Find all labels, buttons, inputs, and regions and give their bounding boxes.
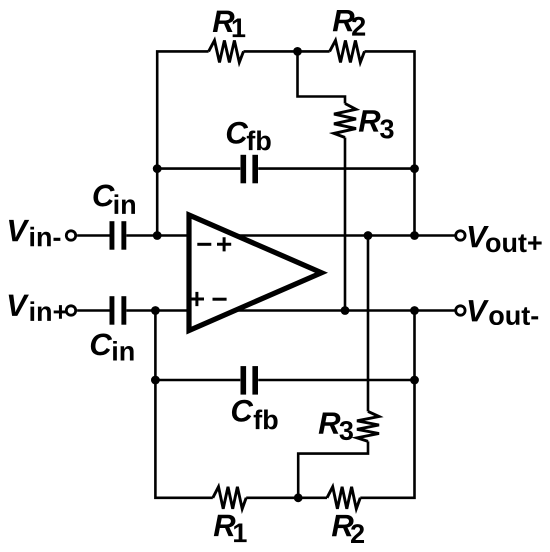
op-amp U1 bbox=[189, 215, 322, 331]
wire: Cfb top rail left segment bbox=[157, 167, 240, 170]
label Cfb (bottom) bbox=[232, 400, 278, 430]
node: top R1-R2 junction dot bbox=[293, 47, 302, 56]
node: Cfb top left dot bbox=[153, 164, 162, 173]
label Vin+ bbox=[9, 295, 68, 321]
wire: bottom-left vertical from Vin+ node down to bottom rail, and bottom rail left segment bbox=[155, 311, 212, 498]
node: bottom R1-R2 junction dot bbox=[294, 493, 303, 502]
wire: Vout+ rail from op-amp top output to terminal bbox=[236, 234, 455, 237]
wire: top rail right segment and right vertical down to Vout+ rail bbox=[365, 51, 415, 235]
capacitor Cin (top) bbox=[110, 221, 115, 250]
op-amp U1 bottom "-" output polarity mark bbox=[213, 298, 227, 301]
label R3 (bottom) bbox=[319, 412, 353, 440]
node: Cfb bottom left dot bbox=[151, 376, 160, 385]
capacitor Cfb (bottom) bbox=[241, 366, 247, 395]
wire: Cfb bottom rail left segment bbox=[155, 379, 240, 382]
resistor R2 (bottom) bbox=[327, 487, 360, 509]
wire: Vin- terminal to Cin bbox=[77, 234, 110, 237]
terminal: Vout- output circle bbox=[456, 306, 465, 315]
node: Vout- rail x right vertical dot bbox=[410, 306, 419, 315]
label R2 (bottom) bbox=[332, 515, 364, 543]
label R2 (top) bbox=[333, 10, 365, 36]
wire: bottom-R3 vertical from Vout+ rail down to R3 bottom (crosses Vout- rail) bbox=[367, 236, 370, 412]
op-amp U1 top "+" output polarity mark bbox=[217, 237, 231, 251]
op-amp U1 non-inverting input mark (bottom left "+") bbox=[190, 292, 204, 306]
terminal: Vin- input circle bbox=[66, 231, 75, 240]
terminal: Vin+ input circle bbox=[66, 306, 75, 315]
resistor R3 (top) bbox=[334, 104, 356, 138]
wire: top rail segment between R1 and R2 bbox=[244, 50, 330, 53]
capacitor Cfb (top) bbox=[241, 155, 247, 184]
wire: top-left vertical from Vin- node up to top rail, and top rail left segment bbox=[157, 51, 208, 235]
label Vin- bbox=[9, 220, 60, 246]
node: Cfb bottom right dot bbox=[410, 376, 419, 385]
node: Vout+ rail x bottom-R3 vertical dot bbox=[364, 231, 373, 240]
node: Vout+ rail x right vertical dot bbox=[410, 231, 419, 240]
resistor R1 (bottom) bbox=[213, 487, 246, 509]
label Cin (top) bbox=[93, 185, 135, 214]
label R1 (top) bbox=[213, 11, 245, 37]
wire: bottom rail right segment and right vertical up to Vout- rail bbox=[360, 311, 414, 498]
wire: R3 bottom lead down, left and down to bottom junction bbox=[298, 441, 368, 497]
label Cfb (top) bbox=[227, 122, 271, 151]
label Vout- bbox=[469, 300, 539, 325]
label R3 (top) bbox=[359, 110, 394, 138]
node: R3 top to Vout- rail dot bbox=[341, 306, 350, 315]
resistor R1 (top) bbox=[209, 40, 244, 62]
resistor R2 (top) bbox=[330, 40, 365, 62]
capacitor Cin (bottom) bbox=[110, 296, 115, 325]
wire: Vout- rail from op-amp bottom output to terminal bbox=[236, 309, 455, 312]
wire: Cfb top rail right segment bbox=[258, 167, 414, 170]
resistor R3 (bottom) bbox=[357, 411, 379, 441]
terminal: Vout+ output circle bbox=[456, 231, 465, 240]
wire: Vin+ terminal to Cin bbox=[77, 309, 110, 312]
node: Cfb top right dot bbox=[410, 164, 419, 173]
wire: R3 top lower lead down to Vout- rail (crosses Cfb rail and Vout+ rail) bbox=[344, 138, 347, 311]
wire: R3 top branch from junction down and right bbox=[298, 51, 346, 103]
wire: Cin to op-amp non-inverting input bbox=[126, 309, 191, 312]
label Cin (bottom) bbox=[91, 333, 134, 360]
label Vout+ bbox=[469, 226, 542, 252]
op-amp U1 inverting input mark (top left "-") bbox=[197, 243, 211, 246]
label R1 (bottom) bbox=[214, 515, 247, 542]
wire: Cfb bottom rail right segment bbox=[258, 379, 414, 382]
wire: bottom rail segment between R1 and R2 bbox=[246, 496, 327, 499]
wire: Cin to op-amp inverting input bbox=[126, 234, 191, 237]
node: Vin- input node dot bbox=[153, 231, 162, 240]
node: Vin+ input node dot bbox=[151, 306, 160, 315]
